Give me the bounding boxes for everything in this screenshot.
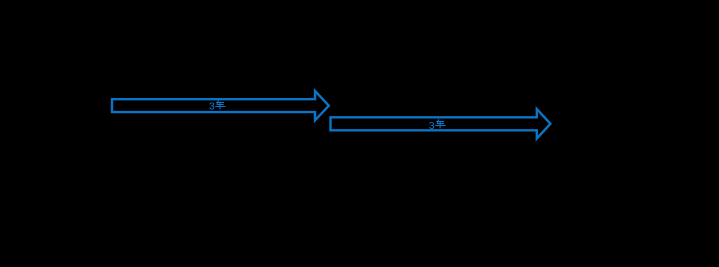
arrow 2 label glyph 年 bbox=[435, 119, 445, 128]
arrow 1 label digit 3 bbox=[209, 100, 215, 112]
arrow 2 label digit 3 bbox=[429, 120, 435, 132]
arrow 1 label glyph 年 bbox=[215, 100, 225, 109]
arrow 2 (right-arrow outline) bbox=[331, 109, 551, 138]
svg-text:3: 3 bbox=[209, 100, 215, 112]
svg-text:3: 3 bbox=[429, 120, 435, 132]
arrow 1 (right-arrow outline) bbox=[112, 91, 329, 120]
